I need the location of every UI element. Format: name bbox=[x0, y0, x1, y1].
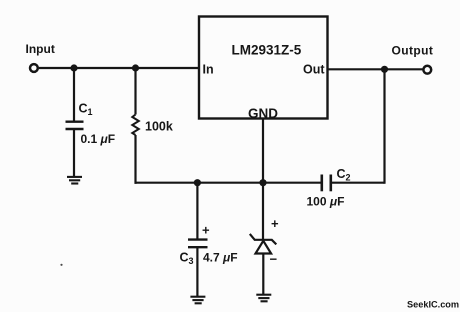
svg-text:0.1 μF: 0.1 μF bbox=[81, 132, 116, 146]
wire ground bus bbox=[135, 182, 321, 184]
ground (zener) bbox=[256, 295, 271, 302]
svg-text:C1: C1 bbox=[79, 102, 93, 118]
wire C1 lower lead bbox=[73, 129, 75, 176]
zener diode D1 bbox=[250, 234, 276, 254]
svg-text:−: − bbox=[270, 252, 278, 267]
wire C2 right lead bbox=[331, 182, 385, 184]
svg-text:100 μF: 100 μF bbox=[307, 195, 345, 209]
resistor R1 100k bbox=[132, 115, 139, 136]
svg-text:4.7 μF: 4.7 μF bbox=[203, 251, 238, 265]
junction node E (zener tap) bbox=[259, 179, 266, 186]
svg-text:+: + bbox=[271, 216, 279, 231]
wire C1 upper lead bbox=[73, 68, 75, 121]
ground (C3) bbox=[190, 297, 205, 304]
capacitor C1 bbox=[66, 122, 84, 129]
junction node B (R1 tap) bbox=[132, 64, 139, 71]
svg-text:LM2931Z-5: LM2931Z-5 bbox=[232, 43, 302, 58]
svg-text:C3: C3 bbox=[180, 251, 194, 267]
wire R1 upper lead bbox=[134, 68, 136, 115]
svg-text:100k: 100k bbox=[145, 120, 173, 134]
svg-text:+: + bbox=[202, 223, 210, 238]
svg-text:Out: Out bbox=[303, 63, 325, 77]
wire feedback riser bbox=[383, 69, 385, 184]
wire GND pin lead bbox=[262, 119, 264, 183]
wire C3 upper lead bbox=[196, 183, 198, 239]
wire input rail bbox=[39, 67, 199, 69]
op-amp U1 LM2931Z-5 box bbox=[199, 17, 328, 119]
speck artifact bbox=[60, 264, 62, 266]
svg-text:SeekIC.com: SeekIC.com bbox=[407, 299, 459, 309]
wire zener upper lead bbox=[262, 183, 264, 240]
svg-text:In: In bbox=[203, 63, 214, 77]
capacitor C3 bbox=[188, 240, 208, 248]
svg-text:Output: Output bbox=[392, 44, 434, 58]
wire zener lower lead bbox=[262, 254, 264, 295]
wire output rail bbox=[328, 68, 423, 70]
wire R1 lower lead bbox=[134, 135, 136, 184]
junction node D (C3 tap) bbox=[194, 179, 201, 186]
junction node C (output feedback tap) bbox=[381, 66, 388, 73]
capacitor C2 bbox=[322, 175, 331, 192]
svg-text:Input: Input bbox=[26, 42, 55, 56]
node Output terminal bbox=[423, 66, 431, 74]
node Input terminal bbox=[30, 64, 38, 72]
ground (C1) bbox=[67, 177, 82, 184]
svg-text:C2: C2 bbox=[337, 167, 351, 183]
junction node A (C1 tap) bbox=[70, 64, 77, 71]
wire C3 lower lead bbox=[196, 247, 198, 296]
